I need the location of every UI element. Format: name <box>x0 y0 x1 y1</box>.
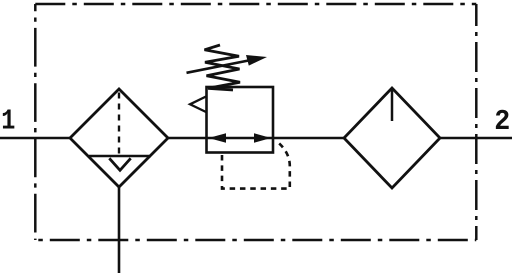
wire filter to regulator <box>168 137 208 139</box>
regulator R1 adjustment arrowhead <box>246 55 267 66</box>
regulator R1 pilot line (dashed) <box>222 141 290 189</box>
wire regulator to lubricator <box>273 137 345 139</box>
enclosure dash-dot border top edge <box>35 3 476 6</box>
wire drain <box>118 187 121 273</box>
regulator R1 adjustment spring <box>205 45 241 90</box>
wire port1 to filter <box>0 137 71 139</box>
filter F1 separator line <box>89 155 151 158</box>
svg-text:2: 2 <box>494 106 510 138</box>
enclosure dash-dot border right edge <box>475 4 478 240</box>
regulator R1 adjustment arrow shaft <box>187 60 252 73</box>
lubricator L1 diamond <box>344 88 440 188</box>
svg-text:1: 1 <box>1 104 15 137</box>
regulator R1 body <box>207 87 274 153</box>
regulator R1 relief vent arrow <box>190 97 206 113</box>
enclosure dash-dot border bottom edge <box>35 239 476 242</box>
lubricator L1 drip line <box>391 89 394 121</box>
filter F1 drain V <box>109 158 130 170</box>
wire lubricator to port2 <box>440 137 512 139</box>
wire regulator flow path <box>207 137 273 139</box>
filter F1 dashed element line <box>118 93 120 156</box>
regulator R1 flow arrows <box>209 133 272 143</box>
enclosure dash-dot border left edge <box>34 4 37 240</box>
filter F1 diamond <box>70 89 168 187</box>
